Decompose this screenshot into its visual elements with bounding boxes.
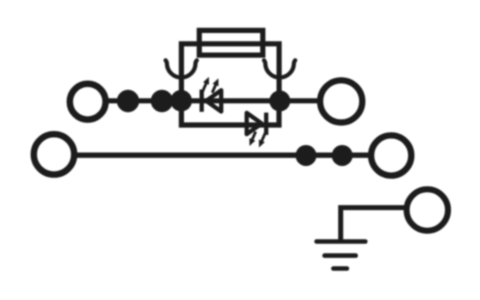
- LED D1 arrow 1: [203, 77, 209, 91]
- ground bar 1: [317, 239, 366, 244]
- fuse F1 body: [199, 30, 262, 55]
- terminal circle bottom-right: [407, 189, 448, 230]
- ground bar 3: [333, 266, 347, 271]
- wire top horizontal: [106, 98, 320, 103]
- LED D1: [202, 77, 222, 112]
- test dot 3: [296, 145, 317, 166]
- terminal circle top-right: [320, 80, 362, 122]
- junction dot left: [170, 90, 192, 112]
- test dot 2: [151, 90, 173, 112]
- terminal circle middle-right: [371, 135, 411, 175]
- ground symbol: [317, 242, 366, 269]
- wire ground branch: [341, 208, 405, 241]
- test dot 1: [117, 90, 139, 112]
- LED D2 cathode bar: [264, 113, 268, 135]
- junction dot right: [269, 90, 290, 111]
- fuse holder clip right: [264, 60, 295, 77]
- test dot 4: [332, 145, 353, 166]
- LED D1 cathode bar: [200, 90, 204, 112]
- wire middle horizontal: [75, 153, 371, 158]
- LED D2 arrow 2: [249, 132, 255, 146]
- wire LED loop: [181, 101, 279, 125]
- terminal circle middle-left: [34, 134, 74, 174]
- fuse holder clip left: [166, 60, 197, 77]
- wire fuse branch (up-over-down): [181, 44, 279, 101]
- LED D1 arrow 2: [212, 78, 218, 92]
- LED D2 arrow 1: [259, 133, 265, 147]
- LED D2 (anti-parallel, rotated 180deg): [247, 113, 267, 148]
- ground bar 2: [325, 253, 356, 258]
- LED D1 triangle: [206, 90, 221, 111]
- LED D2 triangle: [247, 113, 262, 134]
- terminal circle top-left: [70, 84, 106, 120]
